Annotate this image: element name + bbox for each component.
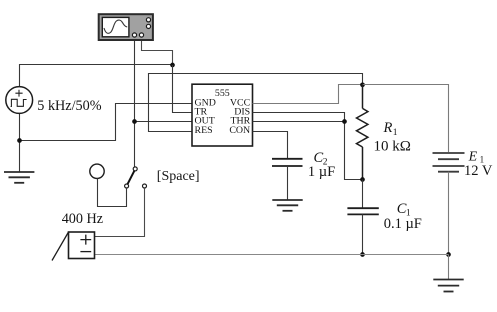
wire: C2 bottom to ground xyxy=(287,166,289,200)
ground (C2) xyxy=(272,200,302,211)
svg-text:E: E xyxy=(468,149,478,164)
wire: battery negative down to ground rail xyxy=(448,172,450,255)
wire: generator negative terminal down to ground xyxy=(19,113,21,171)
wire: open-contact circle to left throw xyxy=(98,179,127,207)
op-amp/timer U1 555 box xyxy=(192,84,253,146)
wire: R1 bottom node down to C1 xyxy=(362,180,364,208)
oscilloscope XSC1 xyxy=(99,14,153,40)
node: TR junction dot xyxy=(170,63,175,68)
node: THR/DIS junction dot xyxy=(342,119,347,124)
wire: right throw down to 400 Hz source plus xyxy=(95,188,145,237)
resistor R1 xyxy=(357,85,368,180)
wire: 555 GND pin to generator negative node xyxy=(20,104,193,141)
capacitor C2 xyxy=(272,159,303,166)
node: generator negative junction dot xyxy=(17,138,22,143)
node: OUT junction dot xyxy=(132,119,137,124)
wire: TR junction down to 555 TR pin xyxy=(173,65,193,113)
svg-text:10 kΩ: 10 kΩ xyxy=(374,139,411,155)
wire: scope channel B probe down to TR junction xyxy=(142,40,173,65)
ground (left, generator) xyxy=(4,172,34,183)
svg-text:CON: CON xyxy=(229,125,250,136)
wire: bottom ground rail xyxy=(95,254,449,256)
switch open-contact stub with circle xyxy=(90,164,104,178)
svg-text:1: 1 xyxy=(393,128,398,138)
node: battery/ground-rail junction dot xyxy=(446,252,451,257)
wire: VCC node to battery positive xyxy=(363,85,449,153)
wire: 555 THR pin to DIS vertical xyxy=(253,121,345,123)
wire: scope channel A vertical to switch common xyxy=(134,40,136,167)
function generator V1 5 kHz/50% xyxy=(6,87,33,114)
wire: 555 VCC pin to VCC node xyxy=(253,85,363,104)
wire: 555 RES pin up and over to VCC node xyxy=(149,74,363,132)
wire: 555 OUT pin to scope/switch vertical xyxy=(135,121,193,123)
node: VCC junction dot xyxy=(360,82,365,87)
wire: junction down to right ground xyxy=(448,255,450,280)
switch J1 right throw terminal xyxy=(143,184,147,188)
svg-text:0.1 µF: 0.1 µF xyxy=(384,216,422,232)
svg-text:12 V: 12 V xyxy=(464,163,493,179)
svg-text:[Space]: [Space] xyxy=(157,169,200,184)
svg-text:400 Hz: 400 Hz xyxy=(62,211,103,227)
capacitor C1 xyxy=(347,208,378,214)
svg-text:RES: RES xyxy=(195,125,213,136)
switch J1 common terminal xyxy=(133,167,137,171)
switch J1 blade xyxy=(128,171,135,185)
source V2 400 Hz box xyxy=(52,232,95,261)
switch J1 left throw terminal xyxy=(125,184,129,188)
wire: C1 bottom to ground rail xyxy=(362,214,364,254)
wire: 555 DIS pin down to R1 bottom node xyxy=(253,113,363,180)
wire: function generator output rail to TR junction xyxy=(20,65,173,87)
wire: 555 CON pin to C2 top xyxy=(253,132,288,159)
svg-text:5 kHz/50%: 5 kHz/50% xyxy=(37,98,101,114)
svg-text:1 µF: 1 µF xyxy=(308,164,335,180)
svg-text:R: R xyxy=(383,120,393,136)
node: R1 bottom / C1 top junction dot xyxy=(360,177,365,182)
battery E1 xyxy=(433,153,465,172)
node: C1/ground-rail junction dot xyxy=(360,252,365,257)
svg-text:555: 555 xyxy=(215,88,230,99)
ground (right, battery) xyxy=(433,280,463,292)
